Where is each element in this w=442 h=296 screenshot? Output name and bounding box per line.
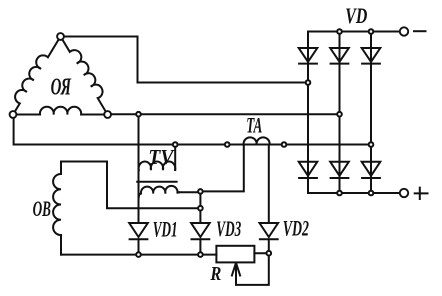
svg-text:ТА: ТА <box>246 113 262 137</box>
svg-text:ОВ: ОВ <box>33 197 51 221</box>
svg-text:TV: TV <box>148 146 174 169</box>
svg-text:VD3: VD3 <box>216 216 241 240</box>
svg-text:VD1: VD1 <box>153 217 178 241</box>
svg-text:VD: VD <box>345 5 367 29</box>
svg-text:R: R <box>210 263 222 285</box>
svg-text:ОЯ: ОЯ <box>51 74 72 100</box>
svg-text:VD2: VD2 <box>283 216 309 240</box>
